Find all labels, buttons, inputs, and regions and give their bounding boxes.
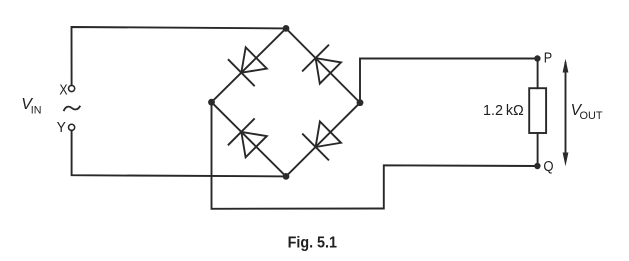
- node P dot: [534, 55, 540, 61]
- node: left junction: [208, 99, 215, 106]
- wire: X terminal up and across to top node: [72, 27, 287, 85]
- svg-text:IN: IN: [31, 105, 42, 117]
- svg-text:X: X: [59, 82, 67, 98]
- diode D2 (top node to right node): [303, 45, 341, 83]
- resistor 1.2 kΩ: [529, 88, 546, 133]
- svg-text:Fig. 5.1: Fig. 5.1: [288, 234, 338, 251]
- svg-text:P: P: [544, 50, 552, 67]
- svg-text:1.2 kΩ: 1.2 kΩ: [483, 103, 524, 119]
- svg-text:Q: Q: [543, 158, 553, 175]
- wire: Y terminal down and across to bottom node: [72, 131, 286, 177]
- wire: bridge diamond top-left side: [212, 28, 287, 102]
- Vout arrow head bottom: [563, 153, 569, 167]
- terminal X circle: [69, 85, 75, 91]
- diode D4 (bottom node to right node): [303, 122, 341, 160]
- wire: resistor bottom down to Q: [537, 133, 539, 166]
- diode D1 (left node to top node): [229, 47, 267, 85]
- node Q dot: [534, 163, 540, 169]
- Vout arrow line: [565, 63, 567, 161]
- wire: Q left, down, left, up to left node: [212, 102, 538, 209]
- wire: bridge diamond bottom-right side: [286, 103, 360, 177]
- terminal Y circle: [69, 124, 75, 130]
- diode D3 (left node to bottom node): [229, 119, 267, 157]
- Vout arrow head top: [563, 59, 569, 73]
- node: bottom junction: [283, 173, 290, 180]
- node: right junction: [357, 99, 364, 106]
- svg-text:Y: Y: [57, 120, 66, 136]
- ac source tilde: [64, 107, 80, 111]
- node: top junction: [283, 25, 290, 32]
- svg-text:OUT: OUT: [580, 110, 603, 122]
- wire: right node up and across to P: [360, 59, 537, 103]
- wire: P down to resistor top: [537, 59, 539, 89]
- wire: bridge diamond bottom-left side: [212, 102, 287, 176]
- wire: bridge diamond top-right side: [286, 28, 360, 102]
